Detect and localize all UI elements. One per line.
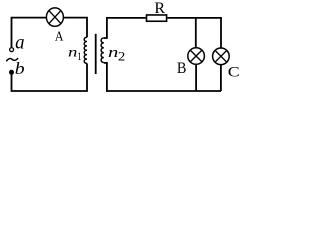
transformer secondary coil n2 <box>101 38 104 63</box>
svg-text:A: A <box>55 27 64 43</box>
svg-text:n: n <box>68 44 77 60</box>
wire <box>12 63 88 91</box>
svg-text:R: R <box>154 0 165 17</box>
svg-text:n: n <box>108 44 118 61</box>
wire <box>104 63 221 91</box>
terminal a <box>10 48 14 52</box>
wire <box>167 18 221 48</box>
svg-text:2: 2 <box>118 50 126 64</box>
svg-text:C: C <box>228 63 240 80</box>
lamp B <box>177 48 205 77</box>
lamp A <box>46 8 64 44</box>
transformer core <box>95 34 97 74</box>
svg-text:B: B <box>177 60 187 77</box>
resistor R <box>147 0 167 21</box>
wire <box>12 18 47 48</box>
wire <box>104 18 146 38</box>
label n1 <box>68 44 82 63</box>
wire <box>220 65 222 91</box>
svg-text:b: b <box>15 59 25 77</box>
svg-text:1: 1 <box>77 51 81 63</box>
AC source tilde <box>6 58 18 61</box>
label n2 <box>108 44 126 63</box>
lamp C <box>213 48 240 80</box>
svg-text:a: a <box>15 32 24 54</box>
wire <box>195 65 197 91</box>
transformer primary coil n1 <box>84 37 87 63</box>
wire <box>64 18 87 38</box>
wire <box>195 18 197 48</box>
terminal b <box>9 70 14 75</box>
